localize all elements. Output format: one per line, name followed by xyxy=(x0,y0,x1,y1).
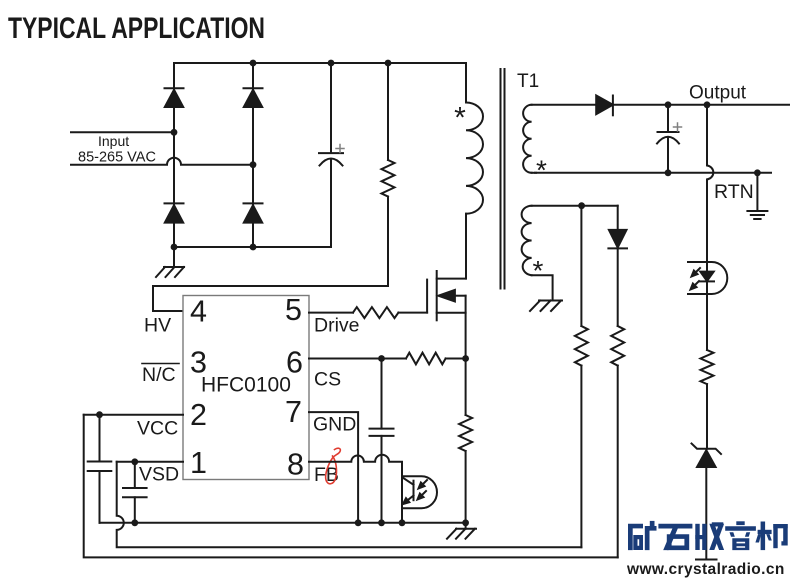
svg-text:www.crystalradio.cn: www.crystalradio.cn xyxy=(626,561,785,578)
svg-text:RTN: RTN xyxy=(714,181,754,203)
svg-text:2: 2 xyxy=(190,398,207,432)
ground primary (slash style) xyxy=(173,247,175,267)
svg-text:1: 1 xyxy=(190,446,207,480)
wire VCC pin 2 xyxy=(84,414,183,416)
terminal bar bottom xyxy=(696,559,717,561)
IC U1 HFC0100 body xyxy=(183,296,309,480)
svg-text:*: * xyxy=(536,155,547,186)
annotation red scribble on FB xyxy=(326,448,341,484)
svg-text:Drive: Drive xyxy=(314,315,360,337)
svg-text:TYPICAL APPLICATION: TYPICAL APPLICATION xyxy=(8,12,265,45)
wire FB pin 8 with hops xyxy=(309,455,402,476)
svg-text:N/C: N/C xyxy=(142,364,176,386)
transistor Q1 MOSFET xyxy=(426,280,428,313)
resistor source sense xyxy=(465,359,467,416)
wire input line 2 with hop over left bridge branch xyxy=(71,158,253,165)
diode output rectifier xyxy=(596,96,613,115)
svg-text:HFC0100: HFC0100 xyxy=(201,374,291,397)
transformer core xyxy=(500,69,502,289)
resistor bleeder (HV startup) xyxy=(387,63,389,160)
wire VSD pin 1 xyxy=(117,461,183,463)
resistor VSD feed xyxy=(580,206,582,326)
optocoupler LED xyxy=(688,262,727,294)
capacitor VSD xyxy=(134,462,136,488)
wire output rail xyxy=(613,104,789,106)
svg-text:8: 8 xyxy=(287,448,304,482)
svg-text:VCC: VCC xyxy=(137,418,178,440)
svg-text:Output: Output xyxy=(689,83,747,104)
node junction dots bridge xyxy=(171,60,392,251)
resistor gate drive xyxy=(353,307,398,318)
svg-text:CS: CS xyxy=(314,369,341,391)
wire RTN rail xyxy=(535,172,771,174)
svg-text:Input: Input xyxy=(98,133,129,149)
ground power (slash style) xyxy=(447,529,476,539)
wire bottom outer return to VCC xyxy=(84,415,618,558)
svg-text:5: 5 xyxy=(285,293,302,327)
diode D1 bridge top-left xyxy=(165,87,184,89)
svg-text:VSD: VSD xyxy=(139,464,179,486)
ground RTN (bar style) xyxy=(756,173,758,211)
svg-text:*: * xyxy=(454,102,466,135)
svg-text:85-265 VAC: 85-265 VAC xyxy=(78,150,156,166)
transformer T1 primary winding xyxy=(465,63,467,103)
resistor LED series xyxy=(701,350,714,384)
capacitor CS filter xyxy=(381,359,383,429)
node dot aux xyxy=(578,202,585,209)
svg-text:*: * xyxy=(533,255,544,286)
diode D2 bridge top-right xyxy=(244,87,263,89)
wire HV line to pin 4 xyxy=(153,286,388,311)
wire input line 1 xyxy=(71,131,174,133)
resistor VCC feed xyxy=(611,326,624,366)
wire bottom inner return to VSD (hop over ground line) xyxy=(117,462,582,548)
node dots output xyxy=(665,101,761,176)
wire Drive pin 5 to gate resistor xyxy=(309,312,353,314)
watermark logo 矿石收音机 xyxy=(628,521,788,550)
transformer secondary winding xyxy=(523,105,532,173)
svg-text:GND: GND xyxy=(313,414,356,436)
node dots CS xyxy=(378,355,385,362)
wire left bridge branch xyxy=(173,63,175,90)
svg-text:7: 7 xyxy=(285,395,302,429)
svg-text:T1: T1 xyxy=(517,71,539,92)
diode aux rectifier xyxy=(617,206,619,230)
transformer aux winding xyxy=(522,206,532,276)
resistor CS sense series xyxy=(406,353,446,365)
node dots ground bus xyxy=(131,519,469,526)
wire LED branch from output node xyxy=(707,105,713,262)
wire local ground bus xyxy=(100,522,466,524)
wire to zener resistor xyxy=(706,294,708,350)
wire bridge bottom rail xyxy=(174,246,331,248)
wire to MOSFET gate xyxy=(398,312,427,314)
wire GND pin 7 xyxy=(309,412,358,523)
diode D4 bridge bottom-right xyxy=(244,202,263,204)
capacitor output (polarized) xyxy=(667,105,669,132)
optocoupler phototransistor xyxy=(402,476,437,508)
ground aux (slash style) xyxy=(530,301,562,312)
svg-text:HV: HV xyxy=(144,315,171,337)
wire top rail xyxy=(174,62,466,64)
wire CS pin 6 xyxy=(309,358,406,360)
diode D3 bridge bottom-left xyxy=(165,202,184,204)
wire aux return to ground xyxy=(532,275,553,300)
capacitor VCC xyxy=(99,415,101,462)
capacitor bulk C1 (polarized) xyxy=(330,63,332,153)
svg-text:4: 4 xyxy=(190,295,207,329)
zener diode xyxy=(692,444,722,455)
wire right bridge branch xyxy=(252,63,254,90)
